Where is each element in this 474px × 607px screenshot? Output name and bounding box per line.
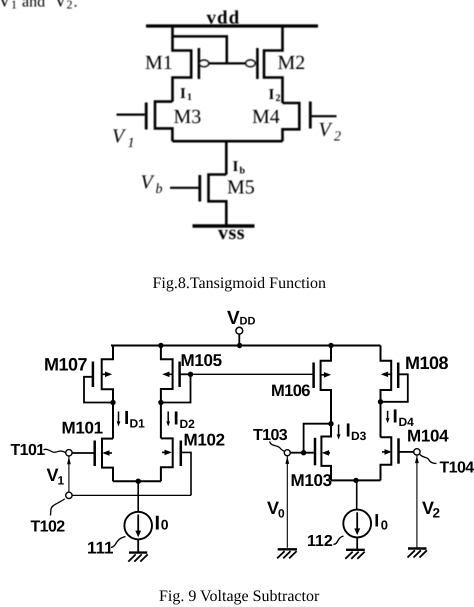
svg-text:M1: M1	[145, 52, 173, 74]
transistor M106 body	[321, 346, 331, 424]
transistor M3 body	[155, 102, 172, 142]
svg-text:T103: T103	[253, 427, 288, 444]
svg-text:D2: D2	[180, 417, 196, 431]
label current I2	[269, 87, 281, 104]
transistor M103 gate bar	[314, 438, 317, 466]
svg-text:D1: D1	[130, 417, 146, 431]
terminal T102 squiggle	[51, 499, 65, 516]
svg-text:D3: D3	[351, 429, 367, 443]
ground under V2	[408, 549, 427, 558]
svg-text:0: 0	[161, 517, 169, 533]
svg-text:M108: M108	[405, 353, 449, 373]
transistor M102 body	[161, 438, 173, 481]
svg-text:I: I	[124, 408, 129, 429]
transistor M2 gate circle (PMOS)	[246, 60, 255, 67]
node vss rail	[193, 224, 255, 227]
wire tail node down to M5	[225, 140, 228, 175]
transistor M1 gate circle (PMOS)	[199, 60, 208, 67]
ground under V0	[277, 549, 297, 558]
svg-text:2: 2	[276, 93, 281, 104]
svg-text:1: 1	[128, 136, 135, 151]
label V0	[267, 498, 285, 521]
terminal T104 squiggle	[420, 455, 437, 464]
svg-text:I: I	[233, 159, 239, 175]
svg-text:T101: T101	[11, 442, 46, 459]
svg-text:I: I	[346, 421, 351, 442]
svg-text:b: b	[156, 182, 163, 197]
transistor M107 gate wire to drain	[84, 377, 113, 403]
svg-text:111: 111	[87, 539, 114, 558]
terminal T102 circle	[66, 492, 72, 498]
wire gate interconnect M1-M2	[209, 62, 246, 64]
wire tail node M103-M104	[331, 479, 381, 481]
wire vdd rail	[146, 24, 318, 27]
transistor M105 body	[161, 346, 173, 403]
svg-text:1: 1	[58, 474, 65, 488]
wire M1 gate bias tap	[173, 36, 227, 63]
node dot M105 gate wire	[188, 372, 193, 377]
wire V0 sense line with up arrow	[285, 456, 289, 548]
node dot M106 source on rail	[328, 343, 333, 348]
transistor M5 gate lead	[170, 187, 199, 189]
svg-text:vss: vss	[218, 222, 245, 244]
transistor M108 gate-drain diode wire	[381, 374, 408, 402]
svg-text:1: 1	[187, 92, 192, 103]
svg-text:b: b	[240, 166, 246, 177]
label V2 input	[319, 119, 342, 145]
svg-text:2: 2	[334, 130, 341, 145]
svg-text:V: V	[54, 0, 67, 11]
node VDD label	[227, 308, 255, 329]
wire current source 111 to ground	[137, 539, 139, 552]
svg-text:M5: M5	[227, 177, 255, 199]
current source 111 arrow	[135, 515, 141, 538]
svg-text:I: I	[155, 513, 161, 535]
transistor M101 gate bar	[93, 441, 96, 467]
wire T102 to M102 gate	[72, 494, 191, 496]
node dot tail left	[136, 479, 141, 484]
wire T103 to M103 gate	[290, 452, 314, 454]
transistor M102 gate bar	[180, 441, 183, 467]
transistor M103 arrow	[322, 450, 330, 456]
wire M103 gate-drain diode connection	[304, 424, 331, 453]
label current ID3	[337, 421, 367, 444]
transistor M4 gate bar	[309, 102, 312, 129]
svg-text:M3: M3	[174, 106, 202, 128]
terminal T101 squiggle	[44, 449, 66, 452]
label I0 left	[155, 513, 169, 535]
label current ID1	[117, 408, 146, 431]
wire V1 sense line with up arrow	[67, 456, 71, 492]
wire VDD stem	[238, 334, 240, 345]
transistor M104 arrow	[382, 449, 392, 455]
svg-text:M107: M107	[44, 355, 88, 375]
transistor M104 drain wire	[380, 402, 382, 438]
transistor M107 gate bar	[92, 362, 95, 388]
svg-text:M105: M105	[181, 351, 222, 370]
wire V2 sense line with up arrow	[415, 455, 419, 548]
label I0 right	[374, 511, 388, 533]
transistor M105 gate bar	[178, 362, 181, 388]
svg-text:0: 0	[278, 507, 285, 521]
transistor M1 body (source from vdd, channel, drain to M3)	[173, 26, 192, 102]
svg-text:2: 2	[67, 0, 73, 12]
svg-text:M2: M2	[278, 52, 306, 74]
wire VDD rail	[111, 345, 381, 347]
current source 112 circle	[343, 510, 371, 538]
svg-text:I: I	[393, 407, 398, 428]
node dot M108 drain junction	[378, 399, 383, 404]
svg-text:M106: M106	[271, 382, 310, 400]
wire tail node M101-M102	[113, 480, 161, 482]
transistor M3 gate lead	[117, 113, 145, 115]
label Vb bias input	[141, 172, 163, 198]
node dot M103-M106 drain junction	[328, 421, 333, 426]
svg-text:M103: M103	[291, 471, 332, 490]
transistor M106 gate bar	[312, 363, 315, 389]
label current ID4	[386, 407, 414, 430]
current source 112 squiggle	[334, 536, 344, 545]
svg-text:V: V	[227, 308, 240, 329]
svg-text:1: 1	[11, 0, 17, 12]
transistor M105 arrow	[162, 372, 172, 378]
transistor M108 arrow	[381, 372, 391, 378]
svg-text:DD: DD	[240, 316, 256, 328]
svg-text:T104: T104	[440, 460, 474, 477]
transistor M102 drain wire	[160, 403, 162, 439]
node dot tail right	[353, 478, 358, 483]
transistor M104 gate bar	[397, 438, 400, 463]
wire M105 gate-drain diode connection	[161, 374, 191, 402]
transistor M101 arrow	[102, 450, 112, 456]
terminal VDD circle	[236, 327, 243, 334]
svg-text:M104: M104	[407, 427, 449, 446]
svg-text:I: I	[180, 86, 186, 102]
svg-text:2: 2	[433, 506, 441, 521]
node dot M107 drain junction	[110, 400, 115, 405]
label current Ib	[233, 159, 246, 177]
label current I1	[180, 86, 192, 103]
node dot T103 wire junction	[301, 450, 306, 455]
label V1 input	[112, 126, 135, 152]
transistor M107 body	[102, 346, 113, 403]
svg-text:M101: M101	[62, 419, 103, 438]
svg-text:Fig. 9 Voltage Subtractor: Fig. 9 Voltage Subtractor	[159, 588, 320, 605]
label V2	[422, 498, 440, 521]
ground under 112	[345, 550, 365, 559]
svg-text:I: I	[174, 409, 179, 430]
transistor M4 body	[283, 103, 300, 141]
svg-text:I: I	[374, 511, 379, 531]
transistor M5 body	[209, 175, 227, 227]
transistor M105 gate lead	[180, 373, 191, 375]
transistor M104 gate lead	[399, 451, 414, 453]
svg-text:112: 112	[307, 533, 333, 550]
current source 111 squiggle	[111, 537, 126, 548]
svg-text:.: .	[74, 0, 78, 11]
transistor M106 arrow	[321, 372, 332, 378]
svg-text:T102: T102	[31, 519, 66, 536]
current source 112 arrow	[354, 512, 360, 535]
transistor M101 gate lead	[72, 452, 95, 454]
transistor M107 arrow	[102, 372, 113, 378]
transistor M101 drain wire	[112, 403, 114, 439]
wire common source M3-M4	[172, 140, 282, 143]
ground under 111	[128, 553, 147, 562]
transistor M4 gate lead	[312, 115, 337, 117]
svg-text:V: V	[0, 0, 11, 11]
transistor M2 gate bar	[256, 48, 259, 79]
transistor M2 body (source from vdd, channel, drain to M4)	[264, 26, 283, 103]
label current ID2	[166, 409, 195, 432]
label V1	[47, 465, 65, 488]
text fragment top left	[0, 0, 78, 12]
transistor M5 gate bar	[198, 175, 201, 202]
node dot VDD tap	[237, 343, 242, 348]
svg-text:Fig.8.Tansigmoid Function: Fig.8.Tansigmoid Function	[153, 275, 327, 292]
transistor M108 gate bar	[397, 363, 400, 389]
transistor M1 gate bar	[198, 48, 201, 79]
terminal T103 circle	[284, 450, 290, 456]
node dot M105 drain junction	[158, 400, 163, 405]
terminal T103 squiggle	[270, 442, 286, 452]
transistor M104 body	[381, 437, 392, 480]
svg-text:I: I	[269, 87, 275, 103]
transistor M108 body	[381, 346, 392, 438]
svg-text:and: and	[22, 0, 45, 11]
transistor M101 body	[102, 439, 113, 482]
node dot M105 source on rail	[158, 343, 163, 348]
current source 111 circle	[124, 512, 152, 540]
wire tail to current source 112	[356, 480, 358, 509]
wire cross-couple M105 gate to M106 gate	[191, 373, 314, 375]
transistor M102 gate lead to T102 wire	[181, 452, 191, 495]
transistor M103 body	[321, 424, 331, 481]
transistor M3 gate bar	[145, 103, 148, 130]
terminal T101 circle	[66, 450, 72, 456]
wire current source 112 to ground	[356, 537, 358, 549]
transistor M102 arrow	[162, 450, 172, 456]
svg-text:M102: M102	[184, 431, 225, 450]
svg-text:M4: M4	[252, 106, 280, 128]
terminal T104 circle	[414, 449, 420, 455]
svg-text:0: 0	[381, 518, 388, 533]
wire tail to current source 111	[137, 481, 139, 512]
